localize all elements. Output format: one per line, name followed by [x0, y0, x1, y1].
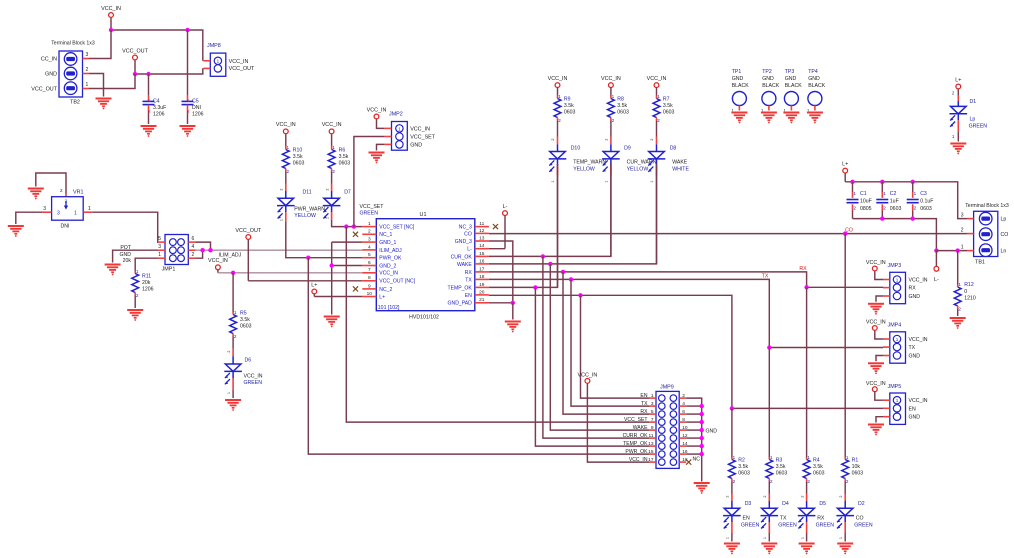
label GND [119, 252, 131, 258]
JMP5 pin stubs [883, 400, 890, 417]
svg-text:VCC_IN: VCC_IN [601, 76, 621, 82]
svg-text:9: 9 [368, 283, 371, 289]
VR1 pin names [57, 210, 77, 216]
wire VR1 pin1 to JMP1 pin5 [92, 212, 158, 242]
svg-text:1: 1 [883, 191, 886, 196]
D3 net labels [741, 516, 760, 529]
svg-text:2: 2 [853, 206, 856, 211]
svg-text:GREEN: GREEN [969, 123, 988, 129]
JMP9 pin stubs [649, 398, 686, 462]
wire JMP1 pin1 to R11 [135, 258, 158, 271]
net label CO [845, 228, 853, 234]
junction (CURR_OK dropper) [541, 254, 545, 258]
ground (R11) [127, 310, 143, 321]
svg-text:14: 14 [479, 243, 485, 249]
ground (R12) [950, 318, 966, 329]
resistor R3 [766, 457, 773, 494]
wire PWR_OK dropper [308, 258, 649, 454]
svg-text:GREEN: GREEN [778, 523, 797, 529]
svg-text:1: 1 [914, 191, 917, 196]
svg-text:3.5k: 3.5k [738, 464, 748, 470]
junction (pin2 tap) [200, 248, 204, 252]
wire TX branch [769, 347, 883, 349]
svg-text:3.5k: 3.5k [240, 317, 250, 323]
ground (JMP3) [868, 304, 884, 315]
svg-text:VCC_OUT: VCC_OUT [31, 87, 57, 93]
svg-text:0603: 0603 [890, 206, 902, 212]
C1 labels [853, 191, 871, 212]
svg-text:RX: RX [799, 266, 807, 272]
ground (D2) [837, 544, 853, 555]
TB2 pin numbers [86, 52, 89, 88]
svg-text:GND: GND [785, 76, 797, 82]
wire net CO [489, 233, 967, 235]
svg-text:CUR_OK: CUR_OK [451, 254, 473, 260]
power L+ (D1) [955, 77, 961, 95]
U1 part number [409, 315, 439, 321]
LED D10 [549, 137, 567, 183]
U1 pin names [379, 225, 472, 307]
svg-text:1: 1 [217, 59, 220, 64]
svg-text:0603: 0603 [852, 471, 864, 477]
svg-text:2: 2 [325, 188, 329, 190]
jumper JMP5 designator [888, 384, 902, 390]
ground (D5) [799, 544, 815, 555]
wire JMP1 pin3 to ground [113, 250, 159, 262]
TB2 net labels [31, 57, 57, 93]
JMP8 pin stubs [204, 61, 211, 69]
svg-text:3.3uF: 3.3uF [153, 105, 166, 111]
svg-text:3: 3 [57, 210, 60, 216]
svg-text:GREEN: GREEN [854, 523, 873, 529]
ground (JMP5) [868, 425, 884, 436]
ground (U1 left) [324, 317, 340, 328]
svg-text:1: 1 [770, 455, 773, 460]
junction (R12 tap) [956, 248, 960, 252]
junction (RX dropper) [561, 270, 565, 274]
svg-text:GND: GND [410, 142, 422, 148]
wire RX branch [807, 286, 883, 288]
svg-text:2: 2 [682, 393, 685, 399]
svg-text:PWR_OK: PWR_OK [625, 449, 648, 455]
resistor R10 [282, 146, 289, 184]
svg-text:2: 2 [148, 109, 151, 114]
svg-text:R10: R10 [293, 147, 303, 153]
svg-text:D8: D8 [670, 146, 677, 152]
svg-text:1: 1 [136, 269, 139, 274]
LED D11 [277, 184, 295, 223]
capacitor C1 [847, 182, 859, 219]
svg-text:2: 2 [192, 252, 195, 258]
svg-text:1: 1 [657, 94, 660, 99]
svg-text:4: 4 [192, 244, 195, 250]
svg-text:DNI: DNI [192, 105, 201, 111]
JMP3 pin stubs [883, 280, 890, 297]
svg-text:NC_2: NC_2 [379, 287, 392, 293]
junction (TX dropper) [569, 277, 573, 281]
power VCC_IN (JMP4) [866, 320, 886, 339]
svg-text:R3: R3 [776, 457, 783, 463]
junction (JMP2 VCC_SET tap) [352, 224, 356, 228]
svg-text:10: 10 [367, 291, 373, 297]
label ILIM_ADJ [219, 252, 242, 258]
svg-text:GREEN: GREEN [360, 211, 379, 217]
svg-text:TB1: TB1 [975, 260, 985, 266]
svg-text:VCC_IN: VCC_IN [367, 107, 387, 113]
ground (JMP2) [369, 153, 385, 164]
power L- (below TB1) [934, 251, 939, 284]
svg-text:CO: CO [464, 231, 472, 237]
svg-text:C3: C3 [920, 191, 927, 197]
svg-text:2: 2 [612, 118, 615, 123]
svg-text:VCC_IN: VCC_IN [379, 271, 398, 277]
resistor R11 [132, 271, 139, 308]
svg-text:JMP5: JMP5 [888, 384, 902, 390]
power L+ (right) [842, 161, 848, 181]
svg-text:DNI: DNI [61, 224, 70, 230]
svg-text:4: 4 [368, 244, 371, 250]
wire D7 to VCC_SET [332, 220, 363, 227]
resistor R12 [954, 251, 961, 316]
svg-text:GND: GND [732, 76, 744, 82]
jumper JMP2 designator [389, 111, 403, 117]
svg-text:WAKE: WAKE [633, 425, 648, 431]
svg-text:BLACK: BLACK [785, 83, 803, 89]
power VCC_IN (R10) [276, 122, 296, 146]
svg-text:WAKE: WAKE [457, 262, 472, 268]
svg-text:GREEN: GREEN [741, 523, 760, 529]
svg-text:RX: RX [640, 409, 648, 415]
svg-text:101 [102]: 101 [102] [378, 305, 400, 311]
capacitor C2 [876, 182, 888, 219]
svg-text:GND: GND [706, 429, 718, 435]
svg-text:3: 3 [961, 213, 964, 219]
R6 labels [332, 145, 350, 174]
svg-text:2: 2 [368, 229, 371, 235]
svg-text:2: 2 [800, 495, 804, 497]
svg-text:VCC_OUT [NC]: VCC_OUT [NC] [379, 279, 415, 285]
svg-text:VR1: VR1 [73, 189, 84, 195]
svg-text:VCC_IN: VCC_IN [410, 126, 430, 132]
svg-text:2: 2 [846, 479, 849, 484]
wire JMP3 GND [876, 296, 883, 302]
wire caps bottom rail [853, 219, 937, 251]
wire JMP4 GND [876, 356, 883, 362]
svg-text:1: 1 [807, 455, 810, 460]
svg-text:2: 2 [287, 169, 290, 174]
terminal block TB2 title [51, 40, 95, 46]
svg-text:11: 11 [649, 433, 654, 439]
junction (PWR_OK) [306, 256, 310, 260]
svg-text:C4: C4 [153, 98, 160, 104]
svg-text:VCC_IN: VCC_IN [208, 258, 228, 264]
svg-text:CURR_OK: CURR_OK [623, 433, 649, 439]
no-connect pin2 [353, 232, 358, 237]
junction (GND bus) [700, 404, 704, 408]
svg-text:TX: TX [762, 273, 769, 279]
svg-text:VCC_SET: VCC_SET [410, 135, 436, 141]
svg-text:10k: 10k [852, 464, 861, 470]
svg-text:5: 5 [651, 409, 654, 415]
JMP1 pin stubs [158, 242, 195, 258]
net label RX [799, 266, 807, 272]
svg-text:BLACK: BLACK [808, 83, 826, 89]
svg-text:1: 1 [800, 537, 804, 539]
wire GND riser to ground [331, 242, 333, 314]
junction (GND bus) [700, 444, 704, 448]
R7 labels [657, 94, 674, 123]
svg-text:4: 4 [682, 401, 685, 407]
ground (GND_PAD) [505, 322, 521, 333]
svg-text:CUR_WARN: CUR_WARN [627, 160, 657, 166]
ground (C4) [141, 126, 157, 137]
svg-text:1: 1 [605, 180, 609, 182]
label GREEN [360, 211, 379, 217]
svg-text:1: 1 [853, 191, 856, 196]
power VCC_IN (JMP2) [367, 107, 387, 119]
svg-text:6: 6 [192, 236, 195, 242]
JMP5 net labels [909, 398, 928, 421]
TB1 designator [975, 260, 985, 266]
svg-text:JMP4: JMP4 [888, 323, 902, 329]
LED D1 designator [970, 99, 977, 105]
wire VCC_OUT node [135, 68, 203, 74]
svg-text:Lp: Lp [970, 116, 976, 122]
resistor R5 [230, 312, 237, 349]
wire D8 bottom [656, 176, 658, 264]
svg-text:1: 1 [74, 210, 77, 216]
svg-text:YELLOW: YELLOW [294, 213, 316, 219]
LED D3 designator [745, 501, 752, 507]
svg-text:15: 15 [479, 251, 485, 257]
svg-text:2: 2 [839, 495, 843, 497]
test point TP1 [732, 92, 747, 114]
svg-text:VCC_IN: VCC_IN [866, 260, 886, 266]
svg-text:1206: 1206 [153, 112, 165, 118]
svg-text:TP3: TP3 [785, 69, 795, 75]
wire GND_2 [332, 265, 363, 267]
junction (VCC_OUT stem) [133, 72, 137, 76]
svg-text:2: 2 [280, 188, 284, 190]
svg-text:R11: R11 [142, 273, 151, 279]
junction (EN branch) [730, 406, 734, 410]
wire CURR_OK dropper [543, 256, 649, 438]
svg-text:VCC_SET [NC]: VCC_SET [NC] [379, 225, 415, 231]
wire L- node to TB1 pin1 [936, 250, 967, 252]
svg-text:TX: TX [909, 345, 916, 351]
ground (D1) [950, 144, 966, 155]
TB2 designator [70, 100, 80, 106]
svg-text:0: 0 [964, 289, 967, 295]
D5 net labels [816, 516, 835, 529]
wire net TX [489, 279, 769, 347]
label 20k [123, 258, 132, 264]
svg-text:1206: 1206 [142, 287, 154, 293]
LED D2 designator [858, 501, 865, 507]
svg-text:GND: GND [45, 72, 57, 78]
TB1 pin stubs [967, 219, 974, 251]
VR1 designator DNI [61, 224, 70, 230]
wire JMP2 VCC_SET down [354, 137, 385, 227]
svg-text:6: 6 [368, 260, 371, 266]
R11 labels [136, 269, 154, 298]
junction (C5 top on rail) [185, 28, 189, 32]
U1 pin stubs [362, 227, 489, 303]
LED D7 [323, 184, 341, 221]
ground (C5) [180, 126, 196, 137]
svg-text:2: 2 [657, 118, 660, 123]
svg-text:VCC_IN: VCC_IN [909, 398, 928, 404]
wire JMP1 pin2 up to ILIM_ADJ [196, 250, 203, 258]
wire JMP2 GND [377, 144, 385, 150]
R9 labels [558, 94, 575, 123]
wire D11 to PWR_OK [286, 222, 309, 258]
LED D5 [798, 494, 816, 542]
svg-text:L+: L+ [311, 282, 317, 288]
junction (C1) [850, 180, 854, 184]
svg-text:RX: RX [817, 516, 825, 522]
junction (GND bus) [700, 452, 704, 456]
JMP1 designator [162, 266, 176, 272]
svg-text:12: 12 [479, 228, 485, 234]
junction (GND bus) [700, 428, 704, 432]
test point TP3 [784, 92, 799, 114]
jumper JMP1 [165, 235, 188, 265]
label VCC_SET [360, 204, 385, 210]
LED D5 designator [819, 501, 826, 507]
svg-text:L-: L- [934, 277, 939, 283]
svg-text:TP1: TP1 [732, 69, 742, 75]
LED D10 designator [571, 146, 581, 152]
power VCC_IN (R8) [601, 76, 621, 96]
svg-text:1: 1 [227, 392, 231, 394]
wire GND_PAD [489, 302, 513, 304]
svg-text:BLACK: BLACK [732, 83, 750, 89]
svg-text:D9: D9 [624, 146, 631, 152]
junction (TEMP_OK dropper) [533, 285, 537, 289]
svg-text:RX: RX [909, 286, 917, 292]
net label TX [762, 273, 769, 279]
svg-text:1: 1 [651, 393, 654, 399]
svg-text:VCC_IN: VCC_IN [322, 122, 342, 128]
resistor R2 [729, 457, 736, 494]
junction (C2 bottom) [880, 216, 884, 220]
junction (L- node) [934, 248, 938, 252]
power VCC_IN (top left) [101, 6, 121, 30]
svg-text:R9: R9 [564, 96, 571, 102]
svg-text:1uF: 1uF [890, 199, 899, 205]
TB2 pin stubs [83, 59, 90, 89]
TB1 net labels [1001, 217, 1009, 255]
test point TP4 labels [808, 69, 826, 89]
svg-text:17: 17 [648, 457, 654, 463]
ground (TP2) [761, 113, 777, 124]
no-connect pin11 [493, 224, 498, 229]
svg-text:TEMP_WARN: TEMP_WARN [573, 160, 606, 166]
svg-text:6: 6 [682, 409, 685, 415]
power L- (above U1) [503, 204, 508, 249]
svg-text:19: 19 [479, 282, 485, 288]
svg-text:VCC_SET: VCC_SET [624, 417, 648, 423]
JMP3 net labels [909, 278, 928, 301]
junction (R5 tap) [231, 271, 235, 275]
power VCC_OUT (mid) [235, 228, 261, 281]
svg-text:R6: R6 [339, 147, 346, 153]
test point TP3 labels [785, 69, 803, 89]
wire TB2 pin3 to rail [89, 30, 111, 59]
svg-text:3: 3 [86, 52, 89, 58]
wire net RX [489, 272, 807, 287]
wire net CUR_OK [489, 164, 611, 256]
wire RX dropper [563, 272, 649, 414]
svg-text:13: 13 [479, 235, 485, 241]
junction (EN dropper) [578, 293, 582, 297]
wire PWR_OK [308, 257, 362, 259]
LED D6 [224, 349, 242, 398]
svg-text:EN: EN [743, 516, 750, 522]
wire net VCC_IN to U1 pin7 [218, 272, 362, 274]
svg-text:0603: 0603 [564, 110, 576, 116]
ground (TB2) [96, 99, 112, 110]
svg-text:D1: D1 [970, 99, 977, 105]
JMP8 net labels [229, 59, 255, 72]
svg-text:0805: 0805 [860, 206, 872, 212]
R4 labels [807, 455, 824, 484]
test point TP4 [807, 92, 822, 114]
LED D4 [761, 494, 779, 542]
svg-text:GND_PAD: GND_PAD [448, 301, 473, 307]
wire TB2 pin1 to VCC_OUT node [89, 74, 135, 89]
wire VCC_IN rail [111, 30, 203, 61]
svg-text:R1: R1 [852, 457, 859, 463]
R5 labels [234, 310, 252, 339]
svg-text:CC_IN: CC_IN [41, 57, 57, 63]
junction (GND bus) [700, 436, 704, 440]
svg-text:5: 5 [158, 236, 161, 242]
D11 net labels [294, 206, 325, 219]
svg-text:C5: C5 [192, 98, 199, 104]
svg-text:3: 3 [651, 401, 654, 407]
svg-text:L-: L- [503, 204, 508, 210]
svg-text:R4: R4 [813, 457, 820, 463]
ground (D3) [724, 544, 740, 555]
svg-text:VCC_IN: VCC_IN [244, 373, 263, 379]
svg-text:11: 11 [479, 221, 484, 227]
wire L- to pin14 [489, 248, 505, 250]
LED D2 [836, 494, 854, 542]
svg-text:1: 1 [86, 82, 89, 88]
svg-text:18: 18 [479, 274, 485, 280]
terminal block TB1 title [965, 203, 1009, 209]
wire TB2 pin2 to ground [89, 74, 104, 97]
svg-text:TP2: TP2 [762, 69, 772, 75]
svg-text:16: 16 [479, 258, 485, 264]
svg-text:JMP8: JMP8 [207, 43, 221, 49]
svg-text:GND_1: GND_1 [379, 240, 396, 246]
svg-text:1: 1 [896, 398, 899, 403]
svg-text:GND: GND [808, 76, 820, 82]
wire VR1 pin3 to ground [16, 212, 43, 224]
svg-text:VCC_IN: VCC_IN [229, 59, 249, 65]
svg-text:VCC_OUT: VCC_OUT [122, 48, 148, 54]
LED D9 designator [624, 146, 631, 152]
svg-text:TB2: TB2 [70, 100, 80, 106]
svg-text:GREEN: GREEN [816, 523, 835, 529]
svg-text:9: 9 [651, 425, 654, 431]
resistor R9 [554, 96, 561, 137]
svg-text:VCC_IN: VCC_IN [548, 76, 568, 82]
svg-text:D2: D2 [858, 501, 865, 507]
